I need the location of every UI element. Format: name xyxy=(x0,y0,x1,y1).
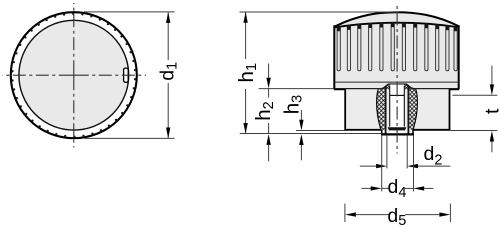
centerline vertical (front view) xyxy=(73,3,75,148)
bushing-bottom extension baseline xyxy=(240,133,381,135)
shoulder arc xyxy=(335,23,459,28)
dimension t xyxy=(491,66,493,85)
dome top arc xyxy=(335,12,459,26)
svg-text:d4: d4 xyxy=(388,176,407,201)
svg-text:d1: d1 xyxy=(157,62,181,81)
insert wall bands xyxy=(385,86,387,134)
hatch on bump shoulders xyxy=(382,84,390,89)
hub-bottom extension line left xyxy=(296,130,345,132)
h1 top extension line xyxy=(240,11,400,13)
knob front view: outer knurled rim xyxy=(11,12,137,138)
h2/h3 top extension line xyxy=(259,88,334,90)
knob front face inner circle xyxy=(19,20,129,130)
bushing collar protrusion xyxy=(382,130,413,134)
dimension d5 xyxy=(345,212,356,216)
centerline vertical (side view) xyxy=(396,6,398,154)
svg-text:d5: d5 xyxy=(387,205,406,227)
d2 extension lines xyxy=(386,135,388,168)
centerline horizontal (front view) xyxy=(3,74,147,76)
d4 extension lines xyxy=(381,135,383,191)
hub below cap xyxy=(345,89,449,130)
bore counterbore line xyxy=(390,94,405,96)
dimension h3 xyxy=(300,110,302,125)
dimension d4 xyxy=(362,187,372,189)
cap bottom edge thin line xyxy=(335,81,458,83)
knurl marks around rim xyxy=(11,13,136,138)
svg-text:h2: h2 xyxy=(252,101,277,120)
dimension h2 xyxy=(268,64,270,79)
thread lines xyxy=(389,86,391,127)
svg-text:t: t xyxy=(481,108,500,114)
cap side edges xyxy=(333,25,335,89)
d5 extension lines xyxy=(344,204,346,222)
t top extension line xyxy=(453,94,498,96)
knurled insert hatch left xyxy=(377,87,385,130)
bushing bottom outline xyxy=(381,133,414,135)
dimension d2 xyxy=(360,165,376,167)
dimension h1 xyxy=(245,12,247,59)
dimension d1 line and arrows xyxy=(167,12,169,60)
svg-text:h3: h3 xyxy=(280,95,305,114)
bushing top bump xyxy=(382,84,413,89)
bore bottom bar xyxy=(388,127,407,130)
keyway mark on front face xyxy=(124,68,129,82)
tapped bore white column xyxy=(390,85,404,134)
svg-text:h1: h1 xyxy=(235,63,260,82)
knurl ribs on cap xyxy=(337,23,457,71)
hub bottom outline xyxy=(344,129,381,131)
knurled insert hatch right xyxy=(409,87,417,130)
knob side view: cap body fill xyxy=(334,12,458,89)
dimension d1 extension lines xyxy=(84,11,175,13)
hub-bottom extension line right xyxy=(450,130,498,132)
svg-text:d2: d2 xyxy=(424,143,443,169)
cap bottom outline xyxy=(334,88,382,90)
